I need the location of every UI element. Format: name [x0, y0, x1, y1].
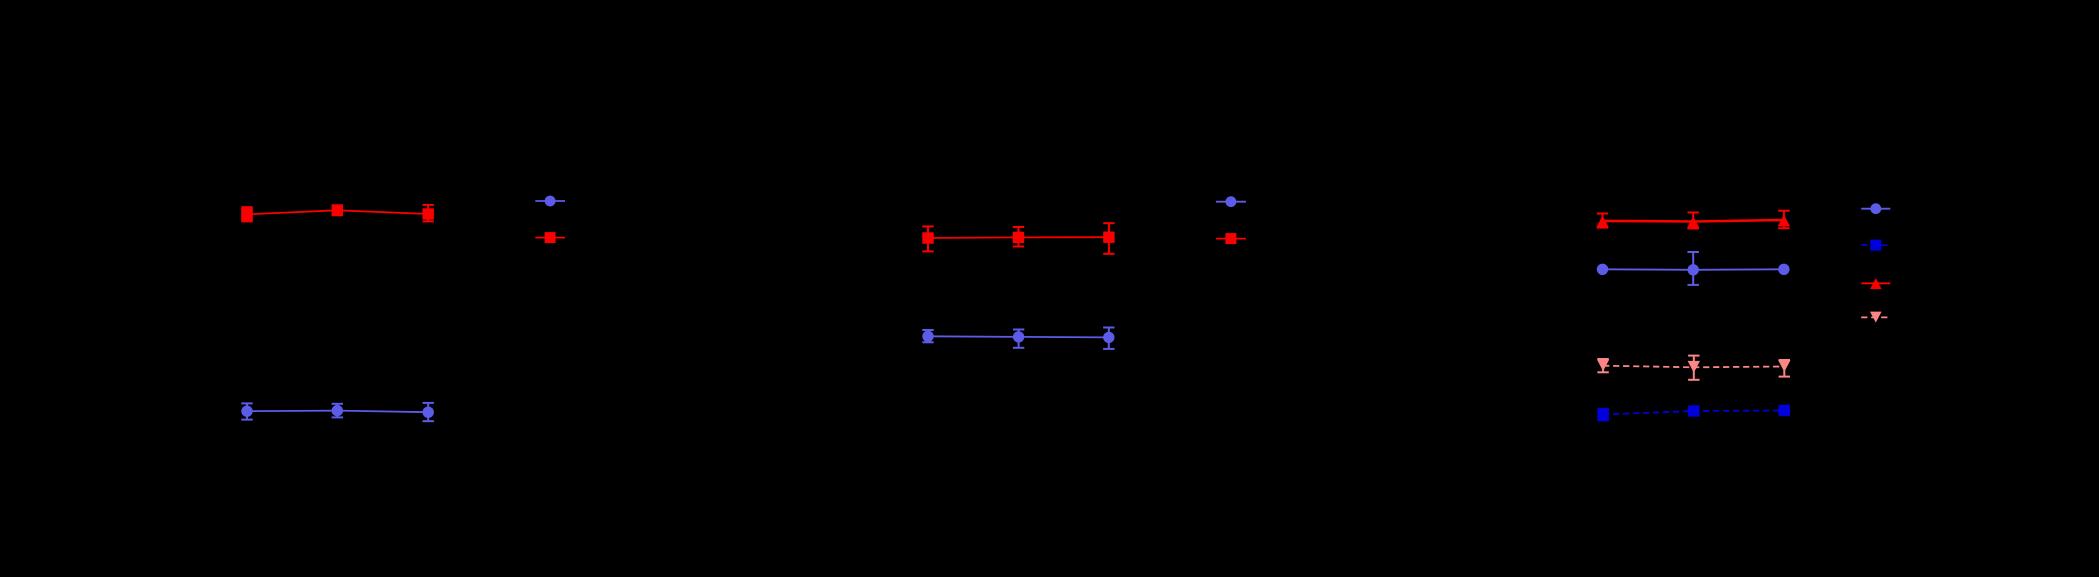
panel3 legend line pink triangle entry: [1861, 316, 1890, 318]
panel3 red errorbar p1: [1597, 214, 1608, 228]
panel3 pink errorbar p2: [1688, 356, 1699, 380]
panel3 red marker p1: [1596, 216, 1608, 228]
pan3 blue marker p3: [1778, 264, 1789, 275]
panel2 blue marker p1: [922, 331, 933, 342]
panel1 red marker p1: [241, 209, 252, 220]
panel3 blue marker p2: [1688, 264, 1699, 275]
panel3 legend marker pink triangle: [1870, 312, 1882, 323]
panel3 pink errorbar p3: [1779, 360, 1790, 377]
panel1 blue line: [247, 411, 428, 413]
panel2 red marker p2: [1013, 232, 1024, 243]
panel3 darkblue dashed line: [1603, 411, 1784, 415]
panel2 blue line: [928, 336, 1109, 337]
panel2 red errorbar p3: [1103, 223, 1114, 254]
panel1 blue marker p2: [332, 405, 343, 416]
panel1 blue errorbar p2: [332, 404, 343, 418]
panel3 blue errorbar p2: [1688, 252, 1699, 285]
panel1 legend marker red square: [545, 232, 556, 243]
panel2 legend marker blue circle: [1226, 196, 1237, 207]
panel3 darkblue errorbar p3: [1779, 406, 1790, 415]
panel1 red errorbar p2: [332, 205, 343, 215]
panel3 legend marker red triangle: [1870, 278, 1882, 289]
panel1 legend line red: [535, 237, 565, 239]
panel3 pink marker p3: [1778, 360, 1790, 372]
panel2 red marker p3: [1103, 232, 1114, 243]
panel3 pink marker p1: [1597, 359, 1609, 371]
panel3 legend line darkblue square entry: [1861, 244, 1890, 246]
panel3 darkblue errorbar p2: [1688, 407, 1699, 416]
panel1 blue errorbar p3: [423, 403, 434, 421]
panel2 blue errorbar p2: [1013, 330, 1024, 348]
panel3 legend marker darkblue square: [1870, 240, 1881, 251]
panel1 red errorbar p3: [423, 205, 434, 222]
panel2 legend line red: [1216, 238, 1246, 240]
panel3 red marker p3: [1778, 215, 1790, 227]
panel3 pink errorbar p1: [1597, 359, 1608, 372]
panel2 red line: [928, 236, 1109, 239]
panel3 darkblue marker p2: [1688, 405, 1699, 416]
panel3 legend line blue circle entry: [1861, 208, 1890, 210]
panel2 red marker p1: [922, 232, 933, 243]
panel1 red marker p2: [332, 205, 343, 216]
panel3 pink dashed line: [1603, 366, 1784, 368]
panel2 red errorbar p2: [1013, 227, 1024, 247]
panel3 red line: [1603, 220, 1784, 222]
panel1 legend marker blue circle: [545, 196, 556, 207]
panel2 blue marker p3: [1103, 332, 1114, 343]
panel3 red errorbar p3: [1778, 211, 1789, 229]
panel3 darkblue marker p3: [1779, 405, 1790, 416]
panel1 blue errorbar p1: [241, 403, 252, 419]
panel2 legend marker red square: [1225, 233, 1236, 244]
panel1 red errorbar p1 (merged with marker): [241, 206, 252, 222]
panel1 legend line blue: [535, 200, 565, 202]
panel3 legend line red triangle entry: [1861, 282, 1890, 284]
panel1 red marker p3: [423, 208, 434, 219]
panel3 blue line: [1603, 268, 1784, 271]
panel2 blue errorbar p3: [1103, 328, 1114, 349]
panel3 blue marker p1: [1597, 264, 1608, 275]
panel3 red marker p2: [1687, 216, 1699, 228]
panel1 blue marker p1: [241, 406, 252, 417]
panel2 blue errorbar p1: [922, 330, 933, 342]
panel3 pink marker p2: [1688, 361, 1700, 373]
panel1 red line: [247, 210, 428, 214]
panel2 legend line blue: [1216, 201, 1246, 203]
panel3 red errorbar p2: [1688, 213, 1699, 229]
panel2 red errorbar p1: [922, 226, 933, 251]
panel2 blue marker p2: [1013, 331, 1024, 342]
panel3 legend marker blue circle: [1870, 203, 1881, 214]
panel1 blue marker p3: [423, 407, 434, 418]
panel3 darkblue marker p1: [1597, 409, 1608, 420]
panel3 darkblue errorbar p1 (merged with marker): [1597, 408, 1608, 422]
